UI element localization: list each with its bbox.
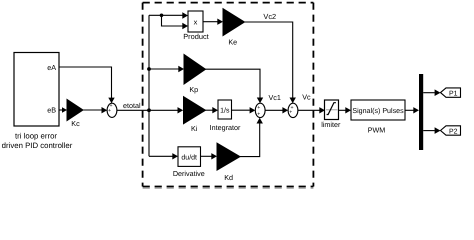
net label: Vc1: [269, 93, 281, 102]
gain Kc: [67, 99, 83, 128]
wire: branch to product upper input: [149, 12, 188, 18]
sum junction Vc1: [255, 103, 265, 117]
wire: PWM output to mux bar: [405, 107, 419, 113]
wire: Kd output to sum Vc1 bottom: [240, 118, 263, 157]
gain Ke: [223, 9, 245, 47]
derivative block du/dt: [173, 147, 205, 178]
net label: etotal: [123, 101, 141, 110]
wire: Ke output (Vc2) to sum Vc top: [245, 22, 296, 103]
wire: vertical branch line: [148, 15, 150, 156]
net label: Vc2: [263, 12, 276, 21]
svg-text:+: +: [289, 110, 292, 116]
product block (x): [183, 11, 208, 41]
wire: product to gain Ke: [203, 19, 223, 25]
svg-text:PWM: PWM: [368, 126, 386, 135]
net label: Vc: [302, 92, 311, 101]
svg-text:+: +: [257, 111, 260, 117]
svg-text:eB: eB: [47, 106, 56, 115]
svg-text:x: x: [194, 17, 198, 26]
wire: branch to gain Kp: [149, 66, 184, 72]
wire: limiter to PWM block: [338, 107, 351, 113]
svg-text:Product: Product: [183, 32, 208, 41]
wire: eA output to sum1 top: [59, 67, 115, 103]
wire: Ki to integrator: [206, 107, 219, 113]
svg-text:Kc: Kc: [71, 119, 80, 128]
svg-text:P2: P2: [449, 129, 458, 136]
svg-text:Vc: Vc: [302, 92, 311, 101]
svg-text:Vc1: Vc1: [269, 93, 281, 102]
wire: bar to outport P1: [423, 89, 440, 96]
junction: branch to Kp: [147, 67, 151, 71]
wire: sum1 output to gain Ki (main net etotal): [117, 107, 183, 113]
wire: eB output to gain Kc: [59, 107, 67, 113]
gain Kd: [217, 143, 240, 182]
sum junction Vc: [288, 103, 298, 117]
svg-text:Signal(s) Pulses: Signal(s) Pulses: [352, 107, 404, 115]
wire: integrator to sum Vc1: [232, 107, 256, 113]
wire: Kp output to sum Vc1 top: [206, 69, 264, 103]
demux bar: [419, 74, 423, 150]
junction: product input split: [160, 14, 164, 18]
outport tag P2: [441, 126, 461, 136]
dashed subsystem boundary box: [143, 3, 314, 189]
wire: Vc output to limiter: [298, 107, 325, 113]
svg-text:Derivative: Derivative: [173, 169, 205, 178]
svg-text:Kd: Kd: [224, 173, 233, 182]
gain Ki: [184, 97, 206, 133]
wire: Vc1 to sum Vc: [265, 107, 288, 113]
integrator block 1/s: [210, 100, 241, 132]
sum junction S1 (etotal): [107, 103, 117, 117]
PWM generator block: Signal(s) Pulses: [351, 100, 405, 135]
saturation block: limiter: [321, 100, 341, 129]
svg-text:Ki: Ki: [191, 124, 198, 133]
svg-text:Vc2: Vc2: [263, 12, 276, 21]
junction: etotal branch point: [147, 108, 151, 112]
svg-text:limiter: limiter: [321, 120, 341, 129]
svg-text:eA: eA: [47, 63, 56, 72]
svg-text:Kp: Kp: [189, 85, 198, 94]
svg-text:du/dt: du/dt: [181, 153, 197, 161]
label: tri loop error driven PID controller: [2, 131, 73, 150]
subsystem block: tri loop error driven PID controller: [14, 53, 59, 127]
svg-text:P1: P1: [449, 91, 458, 98]
svg-text:etotal: etotal: [123, 101, 141, 110]
wire: bar to outport P2: [423, 127, 440, 134]
wire: derivative to gain Kd: [201, 153, 218, 159]
outport tag P1: [441, 88, 461, 98]
wire: branch to product lower input: [162, 15, 189, 29]
svg-text:driven PID controller: driven PID controller: [2, 141, 73, 150]
svg-text:+: +: [257, 105, 260, 111]
svg-text:Ke: Ke: [228, 38, 237, 47]
wire: branch to derivative block: [149, 153, 178, 159]
svg-text:Integrator: Integrator: [210, 123, 241, 132]
svg-text:1/s: 1/s: [220, 107, 230, 115]
svg-text:+: +: [108, 108, 111, 114]
wire: Kc to sum1: [83, 107, 107, 113]
gain Kp: [184, 55, 206, 94]
svg-text:tri loop error: tri loop error: [15, 131, 57, 140]
